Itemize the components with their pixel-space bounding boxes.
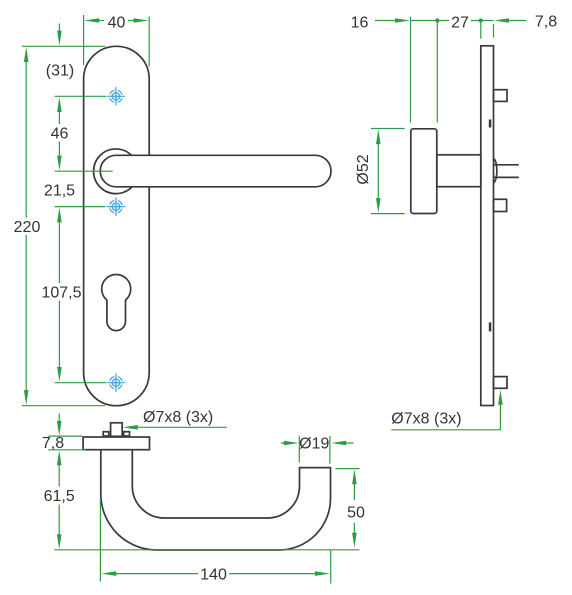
side view rose disc xyxy=(411,129,437,214)
screw position marker 1 xyxy=(107,87,126,106)
svg-text:7,8: 7,8 xyxy=(42,435,64,452)
bottom view left pin xyxy=(103,432,109,436)
svg-text:21,5: 21,5 xyxy=(44,182,75,199)
dimension 46 xyxy=(51,97,69,171)
svg-text:40: 40 xyxy=(108,14,126,31)
svg-text:220: 220 xyxy=(14,219,41,236)
bottom view right pin xyxy=(124,432,130,436)
handle lever (front) xyxy=(100,155,331,187)
screw axis line hole 1 xyxy=(55,95,106,97)
handle bottom reference line xyxy=(54,549,359,551)
spindle boss xyxy=(494,159,497,183)
screw axis line hole 2 xyxy=(55,206,105,208)
screw stub 2 (side) xyxy=(494,199,507,211)
euro cylinder cutout xyxy=(102,274,131,330)
dimension 40 xyxy=(84,14,150,66)
screw stub 3 (side) xyxy=(494,377,508,389)
svg-text:Ø7x8 (3x): Ø7x8 (3x) xyxy=(143,409,213,426)
dimension 220 xyxy=(14,47,106,406)
screw axis line hole 3 xyxy=(55,382,106,384)
svg-text:27: 27 xyxy=(451,14,469,31)
handle rose circle (front) xyxy=(94,149,139,194)
label D7x8 (3x) right xyxy=(391,390,502,430)
dimension 107,5 xyxy=(41,207,81,382)
svg-text:50: 50 xyxy=(347,504,365,521)
front view backplate xyxy=(84,46,150,405)
side view handle neck xyxy=(437,155,481,187)
svg-text:Ø19: Ø19 xyxy=(299,435,329,452)
svg-text:61,5: 61,5 xyxy=(44,488,75,505)
screw position marker 3 xyxy=(107,373,126,392)
dimension (31) xyxy=(22,24,106,80)
spindle square xyxy=(494,164,519,166)
svg-text:16: 16 xyxy=(351,14,369,31)
handle axis line xyxy=(55,170,113,172)
svg-text:46: 46 xyxy=(51,125,69,142)
label D7x8 (3x) left xyxy=(123,409,227,430)
svg-text:(31): (31) xyxy=(46,62,74,79)
dimension D19 xyxy=(281,435,354,463)
svg-text:Ø7x8 (3x): Ø7x8 (3x) xyxy=(391,410,461,427)
screw position marker 2 xyxy=(107,197,126,216)
bottom view screw stub xyxy=(111,423,123,437)
screw stub 1 (side) xyxy=(494,90,508,102)
bottom view lever (U shape) xyxy=(101,450,331,550)
dimension 61,5 xyxy=(44,450,75,549)
bottom view plate bar xyxy=(83,437,149,450)
svg-text:107,5: 107,5 xyxy=(41,284,81,301)
svg-text:7,8: 7,8 xyxy=(535,14,557,31)
dimension 50 xyxy=(336,469,366,548)
clip slot lower xyxy=(489,322,492,331)
dimension 140 xyxy=(100,499,330,584)
dimension 7,8 bottom xyxy=(42,414,86,453)
svg-text:Ø52: Ø52 xyxy=(355,154,372,184)
dimension D52 xyxy=(355,129,405,214)
side view backplate xyxy=(481,46,494,406)
svg-text:140: 140 xyxy=(200,566,227,583)
dimension chain 16 / 27 / 7,8 xyxy=(351,14,558,123)
clip slot upper xyxy=(489,120,492,128)
